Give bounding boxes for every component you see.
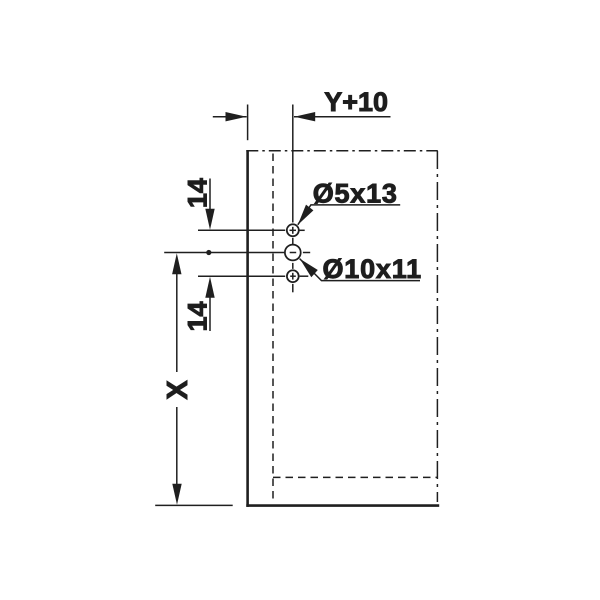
svg-text:Ø5x13: Ø5x13 [313, 178, 398, 208]
dimension X: upper vertical line [176, 273, 178, 373]
leader line Ø10x11 [300, 259, 420, 281]
centerline through top hole (horizontal) [198, 229, 285, 231]
dimension arrow pointing right at panel edge [226, 112, 247, 121]
middle hole center dash [290, 252, 297, 254]
svg-text:14: 14 [183, 178, 213, 208]
svg-text:Ø10x11: Ø10x11 [323, 254, 422, 284]
dimension X: lower vertical line [176, 407, 178, 485]
dimension 14 top: arrow pointing down to top hole line [205, 209, 214, 230]
bottom hole center cross [292, 273, 294, 280]
top hole center cross [292, 227, 294, 234]
hole Ø5x13 bottom (circle) [287, 270, 299, 282]
dimension X: arrow pointing up to middle centerline [172, 253, 181, 274]
panel top dash-dot line [246, 150, 437, 152]
fitting outline hidden left (dashed vertical) [272, 154, 274, 502]
panel front edge (thick vertical line) [246, 150, 249, 507]
centerline through middle hole (horizontal) [164, 252, 284, 254]
reference dot on middle centerline [206, 250, 211, 255]
extension line at panel bottom (left) [155, 504, 233, 506]
fitting outline hidden bottom (dashed horizontal) [273, 476, 437, 478]
centerline through bottom hole (horizontal) [198, 275, 285, 277]
dimension line Y+10 left segment [213, 116, 247, 118]
leader arrow for Ø10x11 pointing at middle hole [300, 259, 318, 277]
panel rear dash-dot line (right vertical) [436, 151, 438, 502]
leader arrow for Ø5x13 pointing at top hole [298, 205, 314, 225]
extension line above panel edge [247, 105, 249, 141]
hole Ø5x13 top (circle) [287, 224, 299, 236]
panel bottom edge (thick horizontal line) [246, 504, 439, 507]
svg-text:14: 14 [183, 301, 213, 331]
svg-text:X: X [162, 380, 194, 400]
leader line Ø5x13 [298, 205, 400, 225]
dimension X: arrow pointing down to panel bottom line [172, 484, 181, 505]
dimension arrow pointing left at hole axis [294, 112, 315, 121]
hole axis centerline (vertical, with gaps at holes) [292, 105, 294, 223]
dimension 14 bottom: arrow pointing up to bottom hole line [205, 277, 214, 298]
dimension 14 bottom: vertical line [209, 296, 211, 331]
svg-text:Y+10: Y+10 [324, 87, 388, 117]
dimension 14 top: vertical line [209, 179, 211, 211]
hole Ø10x11 middle (circle) [285, 245, 301, 261]
dimension line Y+10 right segment [294, 116, 391, 118]
